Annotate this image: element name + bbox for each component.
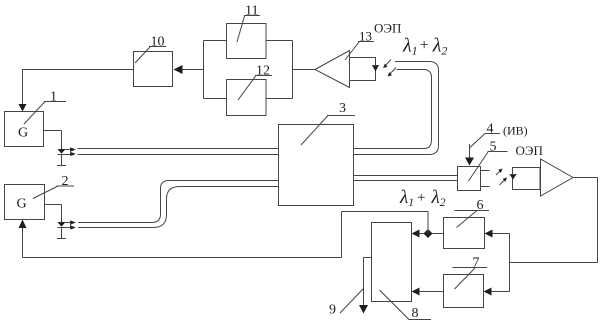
wire from block 12 output [266, 98, 293, 100]
fiber 3: block 3 to modulator 5 [354, 176, 458, 181]
svg-text:8: 8 [412, 306, 419, 321]
block 10 [134, 52, 173, 87]
block 3 (optical coupler) [279, 125, 354, 206]
photodiode symbol PD13 [372, 66, 379, 72]
label 5 [469, 140, 508, 182]
label 10 [135, 35, 166, 64]
fiber loop: PD13 to block 3 (outer line) [354, 62, 439, 155]
svg-text:ОЭП: ОЭП [516, 143, 543, 158]
laser diode LD1 [57, 149, 66, 166]
svg-text:6: 6 [477, 198, 484, 213]
wire: block 7 output to block 8 [412, 288, 444, 296]
arrow 4 into block 5 (measured action ИВ) [465, 144, 474, 166]
wire: amp 13 output to network [293, 69, 316, 71]
block 8 (indicator) [372, 223, 412, 302]
label 11 [237, 4, 260, 43]
block 12 [227, 80, 267, 116]
wire into block 7 [484, 288, 510, 296]
svg-text:ОЭП: ОЭП [374, 21, 401, 36]
label 8 [380, 290, 432, 321]
label 6 [455, 198, 490, 228]
label 3 [301, 101, 355, 145]
light arrows LD2 to fiber [65, 221, 76, 230]
fiber 2: LD2 to block 3 (s-curve) [78, 181, 279, 228]
svg-text:G: G [18, 126, 28, 141]
svg-text:7: 7 [473, 256, 480, 271]
photodiode box PD5 [513, 168, 541, 190]
arrowhead into block 10 [174, 65, 183, 74]
label 7 [453, 256, 488, 290]
label 1 [24, 90, 66, 125]
svg-text:3: 3 [339, 101, 346, 116]
wire to block 12 input [204, 98, 227, 100]
svg-text:(ИВ): (ИВ) [503, 124, 528, 138]
generator G2 (block 2) [5, 185, 45, 220]
label 4 [470, 122, 528, 148]
svg-text:9: 9 [329, 303, 336, 318]
photodiode box PD13 [350, 58, 376, 81]
svg-text:2: 2 [62, 174, 69, 189]
light arrows into PD13 [383, 60, 396, 77]
wire: block10 output to G1 input [19, 69, 135, 112]
wire: block 8 output arrow 9 [359, 258, 372, 314]
block 11 [227, 24, 267, 59]
label 9 [329, 289, 364, 318]
junction node on block 6 output [424, 229, 433, 238]
wire: feedback from junction to G2 [19, 212, 429, 258]
svg-text:1: 1 [50, 90, 57, 105]
label 2 [33, 174, 74, 199]
svg-text:10: 10 [151, 35, 165, 50]
op-amp U13 (photodetector amplifier) [315, 51, 350, 88]
label 13 [345, 29, 374, 61]
light arrows LD1 to fiber [65, 148, 76, 156]
svg-text:5: 5 [490, 140, 497, 155]
wire: block 6 output to block 8 [412, 230, 444, 238]
label 12 [238, 64, 272, 101]
svg-text:λ1+λ2: λ1+λ2 [399, 187, 446, 209]
block 7 [444, 275, 484, 308]
svg-text:G: G [17, 197, 27, 212]
svg-text:λ1+λ2: λ1+λ2 [402, 35, 447, 58]
fiber 1: LD1 to block 3 [78, 149, 279, 155]
light arrows block 5 to PD5 [496, 169, 507, 186]
wire: parallel network to block 10 [183, 69, 204, 71]
wire: G2 output to laser diode 2 [45, 205, 62, 223]
wire to block 11 input [204, 40, 227, 42]
generator G1 (block 1) [5, 112, 44, 147]
block 5 (measurement transducer) [458, 167, 481, 191]
wire into block 6 [485, 230, 510, 238]
wire: amp output feedback [510, 178, 598, 292]
svg-text:4: 4 [487, 122, 494, 137]
fiber loop: PD13 to block 3 (inner line) [354, 70, 432, 149]
fiber stubs out of block 5 [481, 171, 490, 187]
op-amp U2 (right photodetector amplifier) [541, 159, 574, 196]
node: left bus of parallel network [203, 41, 205, 99]
wire from block 11 output [266, 40, 293, 42]
node: right bus of parallel network [292, 41, 294, 99]
block 6 [444, 218, 485, 249]
svg-text:12: 12 [256, 64, 270, 79]
svg-text:11: 11 [245, 4, 258, 19]
wire: G1 output to laser diode 1 [44, 131, 62, 150]
svg-text:13: 13 [359, 29, 372, 44]
photodiode symbol PD5 [510, 175, 517, 180]
laser diode LD2 [57, 222, 66, 239]
